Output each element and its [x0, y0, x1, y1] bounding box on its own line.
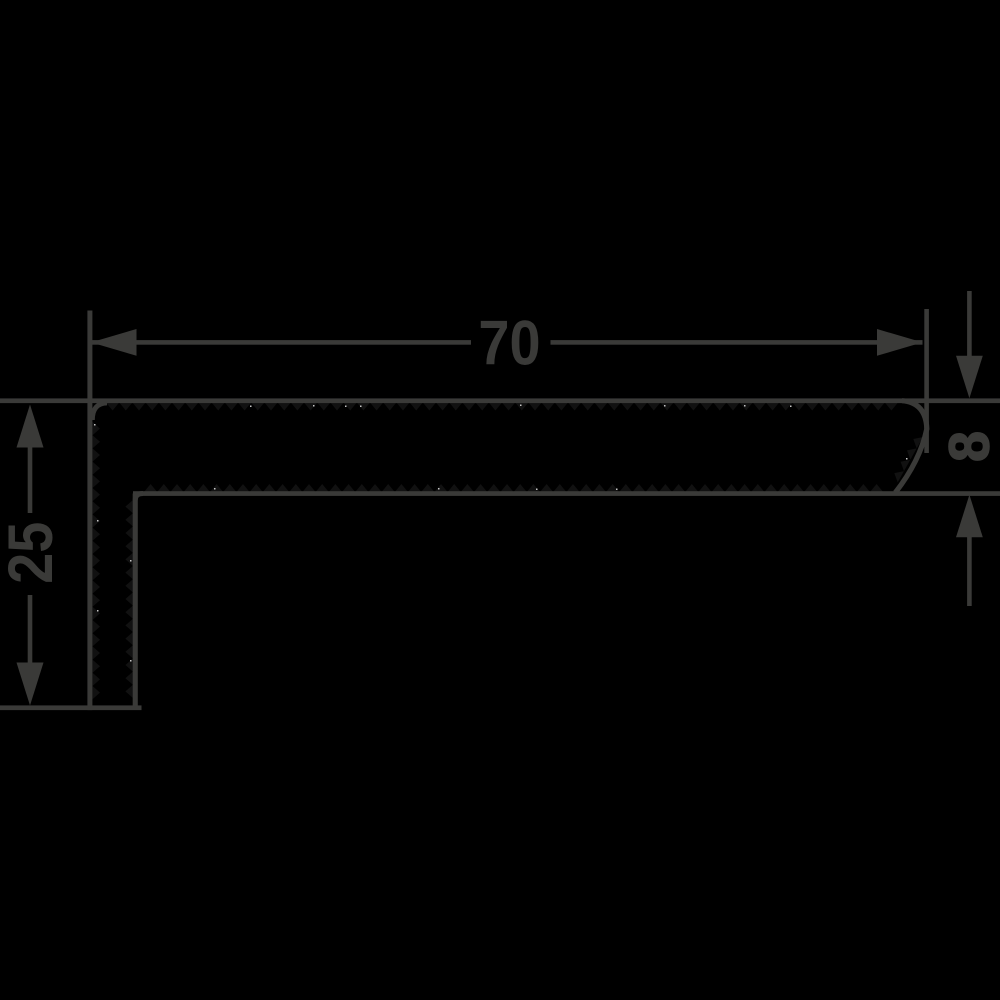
- extension line right (8 dim) / profile flange bottom edge: [133, 491, 1000, 496]
- serration teeth inside leg inner face: [125, 500, 132, 698]
- profile inner corner fillet: [135, 494, 143, 501]
- serration teeth above profile flange bottom face: [144, 484, 883, 492]
- svg-text:8: 8: [937, 431, 1000, 462]
- dimension line 25 upper segment: [28, 446, 33, 513]
- extension line bottom (25 dim) / profile leg bottom edge: [0, 705, 142, 710]
- extension line left vertical (70 dim) / profile leg left edge: [87, 311, 92, 711]
- dimension line 70 right segment: [551, 340, 923, 345]
- serration teeth under profile top face: [106, 403, 898, 411]
- profile leg inner edge: [133, 494, 138, 708]
- arrow 70 left: [91, 329, 137, 356]
- svg-text:70: 70: [478, 307, 540, 378]
- serration teeth inside chamfer: [894, 437, 923, 482]
- arrow 8 top (pointing down): [956, 356, 983, 398]
- serration teeth inside leg left face: [93, 422, 101, 699]
- dimension line 25 lower segment: [28, 595, 33, 663]
- profile top-left corner fillet: [92, 403, 107, 420]
- svg-text:25: 25: [0, 522, 66, 584]
- arrow 25 bottom: [17, 663, 44, 706]
- dimension line 70 left segment: [91, 340, 471, 345]
- extension line right vertical (70 dim): [924, 309, 929, 453]
- dimension line 8 upper segment: [967, 291, 972, 357]
- extension line top (25 dim) / profile top edge, full width: [0, 398, 1000, 403]
- arrow 70 right: [877, 329, 923, 356]
- arrow 25 top: [17, 405, 44, 448]
- arrow 8 bottom (pointing up): [956, 495, 983, 538]
- profile top-right rounded corner and chamfer: [895, 401, 927, 493]
- dimension line 8 lower segment: [967, 537, 972, 606]
- white speck dots along serrations: [94, 405, 908, 662]
